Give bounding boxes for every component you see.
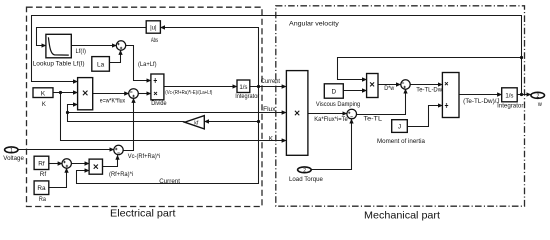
wire sum1 out up to sum2 bbox=[123, 98, 133, 150]
sum circle Te-TL bbox=[347, 109, 357, 119]
signs sum Vc bbox=[115, 148, 120, 153]
junction node w out bbox=[520, 93, 523, 96]
junction node current main bbox=[257, 85, 260, 88]
x mark product Rf+Ra bbox=[94, 165, 98, 169]
svg-text:Ra: Ra bbox=[37, 185, 46, 192]
sum circle e (Vc-...-E) bbox=[129, 89, 139, 99]
wire w branch to D*w product bbox=[338, 58, 522, 80]
svg-text:(Te-TL-Dw)/J: (Te-TL-Dw)/J bbox=[463, 98, 500, 105]
wire sum Rf+Ra to product bbox=[72, 163, 90, 165]
signs sum Te-TL bbox=[348, 112, 353, 117]
wire D out bbox=[343, 90, 366, 92]
wire angular velocity feedback (w) bbox=[32, 16, 522, 95]
svg-text:Te-TL-Dw: Te-TL-Dw bbox=[416, 86, 442, 93]
sum signs bbox=[63, 43, 406, 167]
wire lookup out to sum (La+Lf) bbox=[71, 45, 116, 47]
sum circle La+Lf bbox=[116, 41, 125, 50]
divide2 port marks bbox=[445, 82, 448, 105]
port w output bbox=[531, 92, 545, 98]
wire kf out flux line bbox=[68, 113, 287, 122]
svg-text:Rf: Rf bbox=[38, 160, 45, 167]
wire load torque up to sum3 bbox=[311, 119, 351, 170]
wire J to divide2 bbox=[407, 106, 442, 127]
wire integrator2 out to w port bbox=[517, 94, 531, 96]
block D viscous damping bbox=[324, 84, 343, 98]
svg-text:Current: Current bbox=[261, 78, 280, 85]
wire divide2 out to integrator2 bbox=[459, 94, 502, 96]
svg-text:(Rf+Ra)*i: (Rf+Ra)*i bbox=[109, 171, 133, 178]
svg-text:Current: Current bbox=[159, 178, 180, 185]
svg-text:Electrical part: Electrical part bbox=[110, 208, 176, 220]
svg-text:1: 1 bbox=[10, 148, 13, 154]
port Voltage bbox=[5, 147, 18, 153]
svg-text:1/s: 1/s bbox=[239, 84, 247, 91]
wire (Rf+Ra)*i up to sum1 bbox=[103, 155, 118, 166]
block Abs bbox=[146, 21, 160, 33]
svg-text:Viscous Damping: Viscous Damping bbox=[316, 101, 361, 108]
wire Rf to sum bbox=[49, 163, 62, 165]
svg-text:Lf(I): Lf(I) bbox=[76, 48, 87, 55]
wire D*w out to sum4 bbox=[378, 84, 401, 86]
wire current feedback bottom bbox=[77, 87, 259, 184]
x mark P1 bbox=[83, 91, 88, 96]
wire Ra to sum bbox=[49, 168, 67, 187]
small text labels bbox=[3, 20, 542, 203]
wire sum2 out to divide bbox=[138, 93, 151, 95]
svg-text:Integrator: Integrator bbox=[235, 93, 259, 100]
block product (Rf+Ra)*i bbox=[89, 159, 102, 174]
wire integrator out current bbox=[250, 86, 286, 88]
svg-text:Abs: Abs bbox=[151, 37, 158, 44]
sum circle Te-TL-Dw bbox=[401, 80, 410, 89]
block integrator1 bbox=[237, 80, 250, 93]
signs sum e bbox=[130, 92, 135, 97]
svg-text:Angular velocity: Angular velocity bbox=[289, 20, 340, 27]
svg-text:kf: kf bbox=[194, 120, 199, 126]
x mark product D*w bbox=[370, 82, 374, 86]
svg-text:Ra: Ra bbox=[39, 196, 46, 203]
wire K out bbox=[53, 92, 78, 94]
svg-text:Flux: Flux bbox=[263, 106, 276, 113]
block Lookup Table Lf(I) bbox=[46, 34, 71, 58]
port Load Torque bbox=[298, 167, 312, 173]
signs sum Rf+Ra bbox=[63, 161, 68, 167]
svg-text:Load Torque: Load Torque bbox=[289, 176, 323, 183]
svg-text:1/s: 1/s bbox=[505, 92, 513, 99]
svg-text:(La+Lf): (La+Lf) bbox=[138, 61, 157, 68]
wire divide out to integrator bbox=[164, 86, 237, 88]
svg-text:D: D bbox=[331, 88, 336, 95]
svg-text:2: 2 bbox=[303, 168, 306, 174]
sum circle Rf+Ra bbox=[62, 159, 71, 168]
x mark mech product bbox=[295, 111, 299, 115]
wire Abs out to lookup table bbox=[37, 28, 147, 46]
block integrator2 bbox=[502, 88, 518, 102]
svg-text:|u|: |u| bbox=[150, 26, 157, 32]
wire La to sum bbox=[109, 50, 120, 62]
signs sum La+Lf bbox=[117, 43, 122, 49]
svg-text:Mechanical part: Mechanical part bbox=[364, 210, 440, 222]
wire Te-TL to sum4 bbox=[357, 89, 406, 115]
junction node current kf bbox=[257, 120, 260, 123]
block product D*w bbox=[367, 74, 378, 98]
block inner texts bbox=[10, 26, 539, 192]
svg-text:Voltage: Voltage bbox=[3, 155, 24, 162]
svg-text:Lookup Table Lf(I): Lookup Table Lf(I) bbox=[33, 60, 85, 67]
block K bbox=[33, 88, 53, 98]
svg-text:Divide: Divide bbox=[151, 100, 167, 107]
svg-text:J: J bbox=[398, 124, 401, 131]
block product P1 w*K*flux bbox=[78, 78, 93, 110]
wire voltage bbox=[18, 149, 114, 151]
svg-text:Ka*Flux*i=Te: Ka*Flux*i=Te bbox=[314, 116, 348, 123]
block divide2 bbox=[442, 73, 459, 118]
wire current down to kf bbox=[204, 121, 258, 123]
svg-text:Moment of inertia: Moment of inertia bbox=[377, 138, 425, 145]
lookup table curve icon bbox=[48, 37, 68, 55]
wire flux up into P1 bbox=[68, 105, 78, 113]
svg-text:D*w: D*w bbox=[384, 85, 394, 92]
gain kf triangle bbox=[185, 116, 205, 129]
svg-text:Integrator: Integrator bbox=[497, 103, 523, 110]
wire current to Abs bbox=[160, 28, 258, 87]
junction node flux branch bbox=[66, 111, 69, 114]
svg-text:K: K bbox=[41, 90, 46, 97]
svg-text:La: La bbox=[97, 61, 105, 68]
wire mech product out Te bbox=[308, 113, 347, 115]
svg-text:(Vc-(Rf+Ra)*i-E)/(La+Lf): (Vc-(Rf+Ra)*i-E)/(La+Lf) bbox=[165, 90, 212, 96]
signs sum Te-TL-Dw bbox=[402, 83, 406, 88]
svg-text:e=w*K*flux: e=w*K*flux bbox=[100, 97, 126, 104]
wire (La+Lf) to divide bbox=[126, 46, 151, 81]
wire P1 out e=w*K*flux bbox=[93, 93, 129, 95]
svg-text:2: 2 bbox=[537, 94, 540, 100]
block Rf bbox=[34, 156, 49, 169]
junction node w top bbox=[520, 56, 523, 59]
junction node K branch bbox=[59, 91, 62, 94]
divide1 port marks bbox=[154, 81, 157, 95]
svg-text:w: w bbox=[537, 101, 542, 108]
wire K to mechanical product bbox=[61, 93, 287, 141]
block La bbox=[92, 57, 110, 72]
block Ra bbox=[34, 181, 49, 195]
svg-text:Rf: Rf bbox=[40, 171, 47, 178]
block J moment of inertia bbox=[392, 120, 408, 133]
sum circle Vc-(Rf+Ra)*i bbox=[114, 145, 123, 154]
block divide1 bbox=[151, 74, 164, 100]
svg-text:Te-TL: Te-TL bbox=[364, 116, 383, 123]
wire sum4 out to divide2 bbox=[410, 84, 442, 86]
mechanical part dash-dot border bbox=[276, 6, 525, 206]
electrical part dashed border bbox=[27, 7, 263, 206]
block mech product Ka*Flux*i bbox=[286, 71, 308, 156]
svg-text:Vc-(Rf+Ra)*i: Vc-(Rf+Ra)*i bbox=[128, 153, 161, 160]
product x marks bbox=[83, 78, 448, 168]
